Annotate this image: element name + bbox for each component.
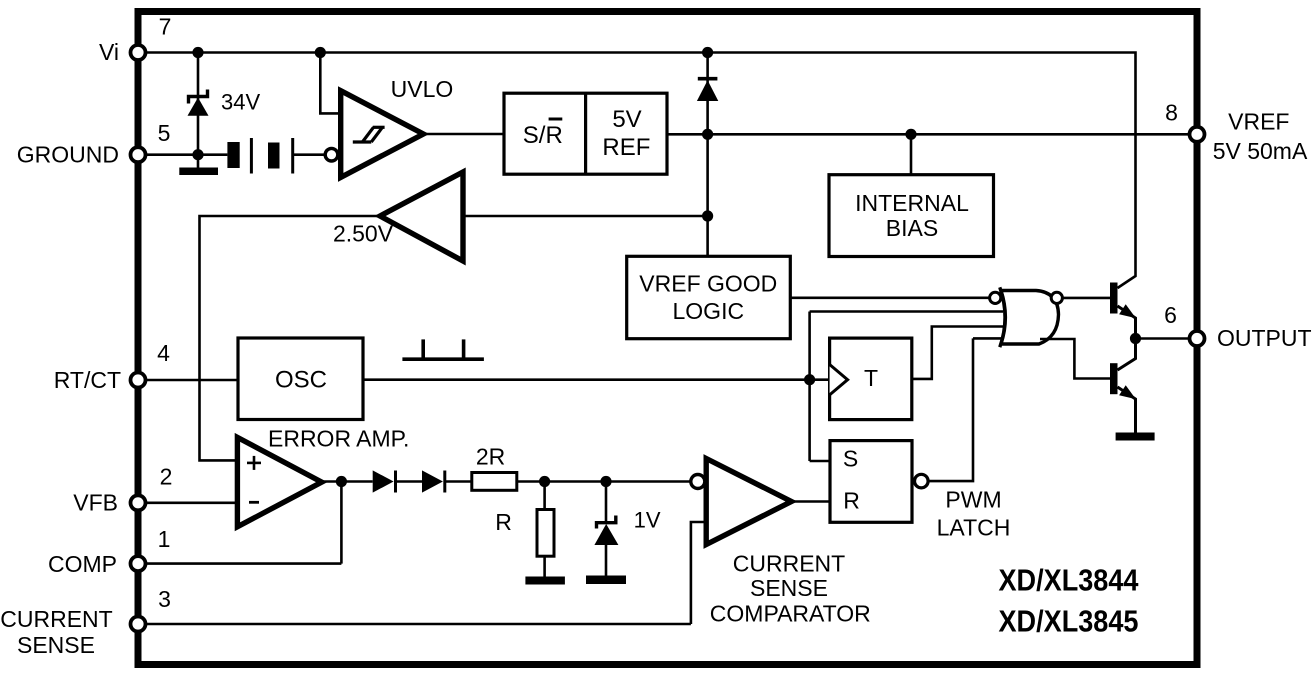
svg-text:S: S <box>843 446 858 472</box>
flip-flop T <box>830 338 912 420</box>
pin 4 RT/CT <box>131 373 146 388</box>
zener diode 34V <box>188 90 209 116</box>
wire pin3 to comparator <box>146 623 691 626</box>
svg-text:BIAS: BIAS <box>886 215 938 241</box>
junction 1V branch <box>600 476 611 487</box>
wire zener to ground <box>605 545 608 576</box>
ground symbol R <box>525 577 565 585</box>
svg-text:Vi: Vi <box>99 39 119 65</box>
wire cap to UVLO <box>293 153 325 156</box>
svg-text:LOGIC: LOGIC <box>673 298 745 324</box>
transistor Q1 <box>1110 283 1136 334</box>
wire clock to NOR <box>808 312 811 462</box>
svg-text:LATCH: LATCH <box>937 515 1011 541</box>
wire pin1 COMP <box>146 562 341 565</box>
svg-text:INTERNAL: INTERNAL <box>855 190 969 216</box>
svg-text:VREF: VREF <box>1228 109 1289 135</box>
svg-text:XD/XL3845: XD/XL3845 <box>999 603 1139 638</box>
wire Vi rail (pin 7 to top transistor collector) <box>146 53 1136 289</box>
wire comparator out to latch R <box>791 500 830 503</box>
wire 2.50V input <box>463 215 708 218</box>
junction 2.50V line <box>702 210 713 221</box>
wire ground rail (pin 5) <box>146 153 227 156</box>
wire error amp out <box>322 480 373 483</box>
junction VREF/bias <box>905 129 916 140</box>
svg-text:REF: REF <box>602 134 650 161</box>
svg-text:3: 3 <box>158 586 171 612</box>
buffer 2.50V <box>380 172 463 261</box>
svg-text:7: 7 <box>159 14 172 40</box>
wire 2R to comparator <box>517 480 691 483</box>
wire pin4 to OSC <box>146 379 238 382</box>
wire output node to pin 6 <box>1136 337 1190 340</box>
label minus <box>249 501 259 504</box>
svg-text:4: 4 <box>157 340 170 366</box>
block INTERNAL BIAS <box>829 175 994 257</box>
svg-text:2R: 2R <box>476 444 505 470</box>
junction R branch <box>539 476 550 487</box>
svg-text:SENSE: SENSE <box>17 632 95 658</box>
gate NOR <box>1001 291 1059 345</box>
svg-text:6: 6 <box>1164 302 1177 328</box>
transistor Q2 <box>1110 339 1136 434</box>
wire S input <box>810 460 830 463</box>
label S/R <box>523 119 563 149</box>
svg-text:R: R <box>843 487 860 513</box>
svg-text:5V: 5V <box>612 106 641 133</box>
junction VREF/diode <box>702 129 713 140</box>
svg-text:34V: 34V <box>221 90 260 115</box>
wire Vi to UVLO input <box>320 53 340 114</box>
svg-text:OUTPUT: OUTPUT <box>1217 325 1312 351</box>
latch PWM <box>830 441 912 523</box>
svg-text:R: R <box>495 509 512 535</box>
comparator CURRENT SENSE <box>706 459 791 545</box>
svg-text:1: 1 <box>158 526 171 552</box>
svg-text:UVLO: UVLO <box>391 76 454 102</box>
junction Vi/diode <box>702 47 713 58</box>
junction Vi/zener <box>192 47 203 58</box>
svg-text:5V 50mA: 5V 50mA <box>1213 138 1308 164</box>
wire NOR out to Q1 base <box>1062 297 1110 300</box>
wire zener branch <box>197 53 200 155</box>
wire 2.50V output to error amp <box>200 216 381 460</box>
wire D2 to 2R <box>445 480 472 483</box>
wire D1 to D2 <box>396 480 423 483</box>
capacitor C1 <box>227 138 251 174</box>
junction OSC line <box>804 374 815 385</box>
wire VREF rail <box>667 133 1190 136</box>
clock waveform symbol <box>402 339 484 359</box>
wire pin2 VFB to error amp <box>146 501 237 504</box>
svg-text:PWM: PWM <box>945 487 1001 513</box>
svg-text:CURRENT: CURRENT <box>733 551 845 577</box>
ground symbol pin5 <box>179 155 218 175</box>
wire R to ground <box>543 556 546 576</box>
svg-text:OSC: OSC <box>275 367 327 394</box>
pin 1 COMP <box>131 556 146 571</box>
svg-text:VFB: VFB <box>73 490 118 516</box>
capacitor C2 <box>268 138 293 174</box>
pin 5 GROUND <box>131 147 146 162</box>
diode D2 <box>422 470 445 492</box>
ground symbol 1V <box>586 576 626 585</box>
svg-text:2.50V: 2.50V <box>333 221 394 247</box>
wire vref good to NOR <box>790 296 989 299</box>
label 5V REF <box>602 106 650 161</box>
svg-text:CURRENT: CURRENT <box>0 606 112 632</box>
pin 2 VFB <box>131 495 146 510</box>
label VREF GOOD LOGIC <box>639 271 777 325</box>
svg-text:2: 2 <box>160 464 173 490</box>
svg-text:5: 5 <box>158 120 171 146</box>
latch output bubble <box>915 474 929 488</box>
label VREF 5V 50mA <box>1213 109 1308 165</box>
wire UVLO out <box>423 133 504 136</box>
junction Vi/UVLO <box>315 47 326 58</box>
T clock chevron <box>830 365 848 395</box>
wire 1V branch <box>605 482 608 522</box>
wire diode branch <box>706 53 709 257</box>
wire NOR input 4 <box>973 337 1005 340</box>
wire T output to NOR <box>912 327 1004 379</box>
IC boundary <box>138 12 1197 665</box>
diode D3 <box>697 79 718 101</box>
svg-text:1V: 1V <box>634 508 661 533</box>
label CURRENT SENSE <box>0 606 112 658</box>
pin 8 VREF <box>1190 127 1205 142</box>
diode D1 <box>373 470 396 492</box>
junction error amp out <box>336 476 347 487</box>
ground symbol Q2 <box>1116 433 1155 441</box>
svg-text:COMPARATOR: COMPARATOR <box>710 601 871 627</box>
wire NOR lower to Q2 base <box>1040 339 1110 379</box>
junction output node <box>1130 333 1141 344</box>
wire bias stem <box>910 134 913 174</box>
NOR gate input bubble <box>990 292 1001 303</box>
svg-text:RT/CT: RT/CT <box>54 367 121 393</box>
hysteresis symbol <box>353 127 385 142</box>
block S/R 5V REF <box>504 93 667 174</box>
pin 3 CURRENT SENSE <box>131 617 146 632</box>
block VREF GOOD LOGIC <box>627 256 791 338</box>
label plus <box>247 456 261 470</box>
svg-text:GROUND: GROUND <box>17 142 119 168</box>
op-amp ERROR AMP <box>237 437 321 526</box>
resistor R <box>537 510 554 557</box>
svg-text:SENSE: SENSE <box>750 575 828 601</box>
UVLO inverting input bubble <box>325 148 338 161</box>
pin 6 OUTPUT <box>1190 331 1205 346</box>
wire latch out to NOR <box>928 338 973 481</box>
svg-text:8: 8 <box>1165 100 1178 126</box>
label PWM LATCH <box>937 487 1011 541</box>
svg-text:COMP: COMP <box>48 551 117 577</box>
comparator UVLO <box>341 91 424 178</box>
svg-text:S/R: S/R <box>523 122 563 149</box>
svg-text:VREF GOOD: VREF GOOD <box>639 271 777 297</box>
wire OSC output <box>363 378 830 381</box>
svg-text:T: T <box>864 365 878 391</box>
comparator CURRENT SENSE input bubble <box>691 475 705 489</box>
svg-text:XD/XL3844: XD/XL3844 <box>999 562 1140 597</box>
junction ground/zener <box>192 149 203 160</box>
svg-text:ERROR AMP.: ERROR AMP. <box>268 426 409 452</box>
label INTERNAL BIAS <box>855 190 969 241</box>
zener diode 1V <box>594 516 618 546</box>
NOR output bubble <box>1051 292 1062 303</box>
label CURRENT SENSE COMPARATOR <box>710 551 871 627</box>
wire R branch <box>543 482 546 510</box>
pin 7 Vi <box>131 45 146 60</box>
block OSC <box>238 338 363 420</box>
resistor 2R <box>472 473 517 491</box>
